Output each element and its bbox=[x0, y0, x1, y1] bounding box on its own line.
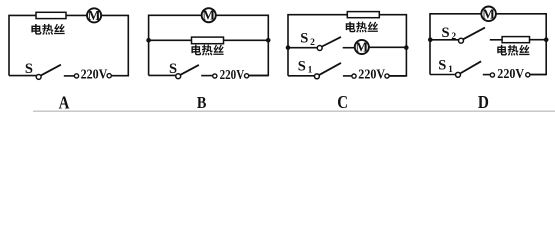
switch S blade B bbox=[180, 65, 199, 75]
circuit A bbox=[9, 8, 128, 83]
svg-text:S: S bbox=[169, 61, 177, 77]
label 电热丝 C bbox=[346, 22, 378, 33]
resistor (heating wire) D bbox=[502, 37, 529, 43]
wire middle right B bbox=[224, 39, 269, 41]
svg-text:M: M bbox=[202, 8, 215, 23]
wire A left and top-left bbox=[9, 15, 37, 75]
wire C left and top-left bbox=[288, 15, 348, 76]
wire bottom-right D bbox=[530, 74, 546, 76]
circuit D bbox=[428, 6, 549, 81]
wire resistor to motor A bbox=[66, 14, 87, 16]
wire middle to S2 pivot C bbox=[288, 47, 317, 49]
wire middle to S2 pivot D bbox=[430, 39, 459, 41]
motor M circle B bbox=[202, 8, 216, 22]
switch S pivot B bbox=[176, 74, 181, 79]
svg-text:C: C bbox=[337, 92, 348, 112]
svg-text:B: B bbox=[197, 93, 207, 112]
svg-text:220V: 220V bbox=[220, 68, 245, 83]
motor M circle C bbox=[355, 40, 369, 54]
wire middle left B bbox=[149, 39, 192, 41]
220V left terminal A bbox=[74, 74, 78, 78]
wire contact to motor C bbox=[343, 47, 355, 49]
svg-text:M: M bbox=[482, 6, 495, 21]
junction dot left C bbox=[286, 45, 291, 50]
switch S2 pivot C bbox=[317, 46, 322, 51]
wire bottom-right B bbox=[249, 75, 269, 77]
junction dot left B bbox=[146, 38, 151, 43]
switch S1 blade C bbox=[319, 63, 341, 75]
220V right terminal B bbox=[245, 74, 249, 78]
svg-text:220V: 220V bbox=[81, 68, 108, 83]
switch S2 pivot D bbox=[459, 38, 464, 43]
label 电热丝 B bbox=[191, 45, 223, 56]
switch S1 pivot C bbox=[314, 74, 319, 79]
wire C top-right and right side bbox=[379, 15, 406, 76]
wire motor to right side D bbox=[496, 14, 546, 75]
wire contact to resistor D bbox=[490, 39, 503, 41]
faint horizontal rule at bottom of scan bbox=[33, 111, 555, 112]
resistor (heating wire) B bbox=[192, 37, 224, 44]
wire switch contact D bbox=[483, 74, 490, 76]
switch S1 pivot D bbox=[456, 72, 461, 77]
svg-text:S: S bbox=[25, 61, 33, 77]
junction dot right B bbox=[266, 38, 271, 43]
wire switch contact B bbox=[201, 75, 212, 77]
wire bottom-left C bbox=[288, 75, 315, 77]
resistor (heating wire) C bbox=[347, 12, 379, 18]
220V left terminal D bbox=[490, 73, 494, 77]
wire switch contact C bbox=[343, 75, 352, 77]
circuit C bbox=[286, 12, 409, 83]
220V right terminal C bbox=[385, 74, 389, 78]
220V right terminal A bbox=[107, 74, 111, 78]
svg-text:220V: 220V bbox=[497, 67, 524, 82]
wire bottom-left B bbox=[149, 74, 176, 76]
svg-text:M: M bbox=[355, 40, 368, 55]
220V right terminal D bbox=[526, 73, 530, 77]
motor M circle D bbox=[481, 7, 496, 22]
wire bottom-left D bbox=[430, 74, 456, 76]
switch S2 blade C bbox=[322, 37, 341, 47]
resistor (heating wire) A bbox=[36, 12, 66, 18]
label 电热丝 A bbox=[31, 24, 64, 35]
junction dot right C bbox=[404, 45, 409, 50]
junction dot left D bbox=[428, 37, 433, 42]
svg-text:A: A bbox=[59, 93, 70, 113]
switch S blade A bbox=[41, 65, 61, 76]
svg-text:D: D bbox=[478, 92, 489, 112]
svg-text:220V: 220V bbox=[358, 68, 385, 83]
wire motor to right side B bbox=[216, 15, 268, 75]
switch S2 blade D bbox=[463, 28, 485, 40]
label 电热丝 D bbox=[497, 45, 529, 56]
wire motor to right C bbox=[369, 46, 407, 48]
220V left terminal B bbox=[213, 74, 217, 78]
wire resistor to right D bbox=[530, 39, 547, 41]
wire bottom-left A bbox=[9, 75, 36, 77]
switch S1 blade D bbox=[460, 61, 481, 73]
wire terminal to switch contact A bbox=[64, 75, 75, 77]
svg-text:M: M bbox=[88, 8, 101, 23]
wire bottom-right C bbox=[389, 75, 406, 77]
junction dot right D bbox=[544, 37, 549, 42]
wire motor to right side down to 220V A bbox=[101, 15, 128, 75]
switch S pivot A bbox=[36, 74, 41, 79]
circuit B bbox=[146, 8, 270, 83]
wire B left and top-left bbox=[149, 15, 202, 75]
wire D left and top-left bbox=[430, 14, 481, 75]
motor M circle A bbox=[87, 8, 101, 22]
220V left terminal C bbox=[352, 74, 356, 78]
